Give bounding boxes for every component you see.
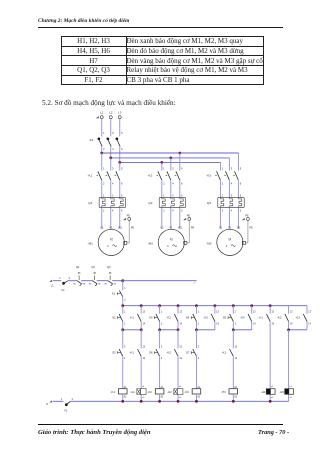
wire join to row2 contact branch 1	[122, 330, 124, 349]
svg-text:A2: A2	[124, 395, 128, 398]
PE terminal for motor -M3	[242, 218, 245, 220]
svg-text:14: 14	[290, 324, 293, 326]
contactor -K3 pole 1 contact blade	[217, 171, 221, 180]
section heading 5.2	[42, 99, 176, 107]
svg-text:-K3: -K3	[184, 390, 189, 394]
wire -K3 pole 2 to overload relay	[228, 180, 230, 197]
contactor -K1 pole 1 contact blade	[98, 171, 102, 180]
wire lamp -H2 to neutral bus	[177, 395, 179, 402]
footer left	[38, 429, 151, 436]
svg-text:5: 5	[240, 167, 242, 171]
svg-text:1: 1	[124, 311, 126, 313]
svg-text:5: 5	[181, 167, 183, 171]
contactor -K1 pole 2 contact blade	[107, 171, 111, 180]
svg-text:14: 14	[179, 324, 182, 326]
wire join to row2 contact branch 2	[140, 330, 142, 349]
svg-text:-H2: -H2	[167, 390, 172, 394]
svg-text:13: 13	[179, 346, 182, 348]
wire bus L2 to contactor -K3 pole 2	[228, 158, 230, 171]
wire control feed to fuse F2	[53, 280, 61, 282]
wire bus to row1 contact S2 branch 1	[122, 306, 124, 314]
breaker F1 pole 3 contact	[116, 137, 119, 140]
junction L1 bus / branch2	[178, 152, 181, 155]
wire bus to row1 contact -K3 branch 11	[306, 313, 308, 315]
svg-text:PE: PE	[127, 215, 131, 218]
wire L1 terminal to breaker F1 pole 1	[101, 119, 103, 136]
node A junction	[121, 279, 124, 282]
svg-text:W1: W1	[237, 226, 241, 229]
svg-text:14: 14	[308, 324, 311, 326]
contact S3 blade	[156, 314, 160, 322]
contact -K2 blade	[174, 349, 178, 356]
junction neutral bus / branch 5	[195, 400, 198, 403]
svg-text:3: 3	[225, 244, 227, 248]
junction L1 bus / branch1	[100, 152, 103, 155]
junction control bus / branch 4	[177, 304, 180, 307]
svg-text:4: 4	[198, 358, 200, 360]
svg-text:4: 4	[172, 181, 174, 185]
wire bus to contactor -K1 pole 2	[110, 158, 112, 171]
contact -K1 blade	[266, 314, 270, 322]
svg-text:L2: L2	[109, 111, 113, 115]
neutral bus rail	[71, 400, 289, 402]
svg-text:PE: PE	[250, 226, 254, 229]
svg-text:2: 2	[222, 210, 224, 213]
svg-text:95: 95	[104, 283, 107, 285]
wire row2 contact branch 5 to coil	[195, 356, 197, 388]
svg-text:-F1: -F1	[89, 138, 94, 142]
svg-text:U1: U1	[100, 226, 104, 229]
overload relay Q3 heater element 1	[219, 197, 221, 199]
svg-text:6: 6	[240, 181, 242, 185]
svg-text:PE: PE	[245, 215, 249, 218]
svg-text:x1: x1	[142, 386, 145, 388]
svg-text:1: 1	[222, 167, 224, 171]
wire lamp -H4 to neutral bus	[269, 395, 271, 402]
node L2 terminal	[109, 116, 112, 119]
svg-text:U1: U1	[219, 226, 223, 229]
wire neutral terminal to fuse F3	[53, 400, 63, 402]
svg-text:6: 6	[181, 181, 183, 185]
contactor -K1 pole 3 contact blade	[116, 171, 120, 180]
svg-text:F2: F2	[62, 289, 66, 292]
motor -M1 terminal box	[124, 241, 127, 244]
wire -K3 pole 3 to overload relay	[237, 180, 239, 197]
svg-text:3: 3	[167, 244, 169, 248]
overload relay Q3 heater element 3	[237, 197, 239, 199]
wire lamp -H1 to neutral bus	[140, 395, 142, 402]
overload relay Q1 heater element 2	[110, 197, 112, 199]
junction neutral bus / branch 2	[140, 400, 143, 403]
svg-text:2: 2	[222, 181, 224, 185]
button S3 actuator	[154, 317, 157, 319]
wire row1 contact branch 8 lower	[251, 322, 253, 330]
svg-text:14: 14	[179, 358, 182, 360]
svg-text:Q3: Q3	[107, 265, 111, 269]
svg-text:PE: PE	[131, 226, 135, 229]
svg-text:PE: PE	[191, 226, 195, 229]
svg-text:3: 3	[112, 194, 114, 197]
wire bus to row1 contact S5 branch 7	[232, 306, 234, 314]
wire row2 contact branch 1 to coil	[122, 356, 124, 388]
svg-text:2: 2	[235, 324, 237, 326]
wire row2 contact branch 7 to coil	[232, 356, 234, 388]
svg-text:96: 96	[83, 283, 86, 285]
wire lamp -H5 to neutral bus	[288, 395, 290, 402]
junction L2 bus / branch2	[169, 157, 172, 160]
svg-text:W1: W1	[118, 226, 122, 229]
svg-text:4: 4	[231, 210, 233, 213]
wire Q3 pole 1 to motor terminal	[219, 208, 221, 229]
svg-text:3: 3	[112, 131, 114, 135]
parallel join wire branches 7-8	[233, 329, 251, 331]
wire -K2 pole 2 to overload relay	[170, 180, 172, 197]
wire coil -K3 to neutral bus	[195, 394, 197, 401]
junction neutral bus / branch 1	[121, 400, 124, 403]
wire Q3 pole 2 to motor terminal	[228, 208, 230, 229]
svg-text:1: 1	[103, 194, 105, 197]
svg-text:13: 13	[308, 311, 311, 313]
svg-text:3: 3	[124, 346, 126, 348]
wire row1 contact branch 1 lower	[122, 322, 124, 330]
contact -K3 blade	[303, 314, 307, 322]
svg-text:2: 2	[124, 298, 126, 301]
contactor -K2 pole 2 contact blade	[167, 171, 171, 180]
motor -M3 terminal box	[242, 241, 245, 244]
svg-text:2: 2	[103, 181, 105, 185]
wire row2 contact branch 2 to coil	[140, 356, 142, 388]
svg-text:N: N	[46, 403, 48, 406]
wire row1 contact branch 9 lower	[269, 322, 271, 330]
svg-text:95: 95	[109, 273, 112, 275]
wire F1 pole 2 to bus	[110, 147, 112, 158]
svg-text:96: 96	[98, 283, 101, 285]
svg-text:3: 3	[231, 167, 233, 171]
wire bus to row1 contact S4 branch 5	[195, 306, 197, 314]
parallel join wire branches 5-6	[196, 329, 214, 331]
svg-text:4: 4	[231, 181, 233, 185]
svg-text:4: 4	[112, 147, 114, 151]
junction join / branch 4	[177, 328, 180, 331]
contactor -K3 pole 2 contact blade	[226, 171, 230, 180]
svg-text:-K1: -K1	[111, 390, 116, 394]
svg-text:6: 6	[121, 210, 123, 213]
svg-text:13: 13	[142, 346, 145, 348]
node L1 control feed terminal	[49, 280, 52, 282]
wire control bus stub	[123, 280, 197, 282]
svg-text:Q1: Q1	[88, 201, 92, 205]
svg-text:1: 1	[161, 311, 163, 313]
contact -K4 blade	[248, 314, 252, 322]
svg-text:-K2: -K2	[166, 350, 171, 354]
svg-text:-H5: -H5	[279, 390, 284, 394]
wire join to row2 contact branch 3	[159, 330, 161, 349]
page header	[38, 18, 129, 24]
bus L3	[120, 161, 221, 163]
svg-text:x2: x2	[179, 397, 182, 399]
breaker F1 pole 2 contact	[107, 137, 110, 140]
wire Q3 contact to node A	[112, 280, 123, 282]
wire bus to row1 contact -K1 branch 2	[140, 306, 142, 314]
wire branch 9 to lamp H4	[269, 330, 271, 389]
wire bus to row1 contact -K3 branch 6	[214, 306, 216, 314]
svg-text:2: 2	[161, 324, 163, 326]
parallel join wire branches 1-2	[123, 329, 141, 331]
svg-text:5: 5	[181, 194, 183, 197]
wire row1 contact branch 7 lower	[232, 322, 234, 330]
svg-text:2: 2	[163, 210, 165, 213]
svg-text:95: 95	[78, 273, 81, 275]
wire row2 contact branch 3 to coil	[159, 356, 161, 388]
wire Q2 pole 1 to motor terminal	[161, 208, 163, 229]
svg-text:M: M	[110, 237, 113, 241]
svg-text:-K1: -K1	[87, 174, 92, 178]
wire L2 terminal to breaker F1 pole 2	[110, 119, 112, 136]
svg-text:14: 14	[271, 324, 274, 326]
svg-text:1: 1	[59, 277, 61, 280]
junction join / branch 7	[232, 328, 235, 331]
wire Q3 pole 3 to motor terminal	[237, 208, 239, 229]
junction control bus / branch 1	[121, 304, 124, 307]
wire to overload contact Q1	[68, 280, 77, 282]
node L3 terminal	[118, 116, 121, 119]
svg-text:1: 1	[103, 131, 105, 135]
junction control bus / branch 3	[158, 304, 161, 307]
svg-text:-K1: -K1	[130, 316, 135, 320]
junction control bus / branch 7	[232, 304, 235, 307]
junction join / branch 10	[287, 328, 290, 331]
contact S2 blade	[119, 314, 123, 322]
svg-text:-M2: -M2	[148, 242, 154, 246]
wire join to row2 contact branch 4	[177, 330, 179, 349]
svg-text:95: 95	[93, 273, 96, 275]
svg-text:PE: PE	[187, 215, 191, 218]
svg-text:Q1: Q1	[76, 265, 80, 269]
wire coil -K2 to neutral bus	[159, 394, 161, 401]
svg-text:14: 14	[235, 358, 238, 360]
svg-text:-K4: -K4	[240, 316, 245, 320]
svg-text:Q3: Q3	[207, 201, 211, 205]
wire to overload contact Q3	[97, 280, 108, 282]
svg-text:2: 2	[163, 181, 165, 185]
svg-text:x2: x2	[142, 397, 145, 399]
wire -K3 pole 1 to overload relay	[219, 180, 221, 197]
svg-text:96: 96	[114, 283, 117, 285]
junction neutral bus / branch 9	[269, 400, 272, 403]
overload relay Q3 heater element 2	[228, 197, 230, 199]
contactor -K3 pole 3 contact blade	[235, 171, 239, 180]
svg-text:-K3: -K3	[295, 316, 300, 320]
svg-text:Q2: Q2	[148, 201, 152, 205]
svg-text:2: 2	[198, 324, 200, 326]
junction join / branch 3	[158, 328, 161, 331]
contact S7 blade	[193, 349, 197, 356]
breaker F1 pole 1 contact	[98, 137, 101, 140]
legend table	[61, 36, 264, 85]
svg-text:A2: A2	[234, 395, 238, 398]
wire join to row2 contact branch 7	[232, 330, 234, 349]
svg-text:-K2: -K2	[277, 316, 282, 320]
overload relay Q2 body	[159, 197, 185, 207]
parallel join wire branches 3-4	[160, 329, 178, 331]
svg-text:13: 13	[235, 346, 238, 348]
wire PE to motor -M2 frame	[188, 221, 190, 243]
button S3 actuator	[118, 352, 121, 354]
svg-text:S7: S7	[186, 350, 190, 354]
svg-text:-H1: -H1	[130, 390, 135, 394]
wire bus L2 to contactor -K2 pole 2	[170, 158, 172, 171]
wire row1 contact branch 10 lower	[288, 322, 290, 330]
wire Q1 pole 3 to motor terminal	[119, 208, 121, 229]
junction neutral bus / branch 4	[177, 400, 180, 403]
svg-text:L1: L1	[51, 285, 54, 288]
wire S1 to control bus	[122, 297, 124, 306]
wire row1 contact branch 2 lower	[140, 322, 142, 330]
junction control bus / branch 6	[213, 304, 216, 307]
svg-text:-M3: -M3	[206, 242, 212, 246]
contact S4 blade	[193, 314, 197, 322]
motor -M3 body	[217, 229, 243, 255]
wire -K2 pole 3 to overload relay	[179, 180, 181, 197]
svg-text:x1: x1	[289, 386, 292, 388]
contact -K3 blade	[211, 314, 215, 322]
svg-text:M: M	[229, 237, 232, 241]
svg-text:S3: S3	[149, 316, 153, 320]
wire bus to row1 contact S3 branch 3	[159, 306, 161, 314]
overload relay Q2 heater element 1	[161, 197, 163, 199]
wire PE to motor -M1 frame	[128, 221, 130, 243]
svg-text:S2: S2	[112, 316, 116, 320]
junction neutral bus / branch 3	[158, 400, 161, 403]
junction join / branch 1	[121, 328, 124, 331]
junction L2 bus / branch1	[109, 157, 112, 160]
contact S6 blade	[156, 349, 160, 356]
overload relay Q1 heater element 3	[119, 197, 121, 199]
svg-text:1: 1	[235, 311, 237, 313]
wire row1 contact branch 4 lower	[177, 322, 179, 330]
wire join to row2 contact branch 5	[195, 330, 197, 349]
contactor -K2 pole 1 contact blade	[158, 171, 162, 180]
junction L3 bus / branch1	[118, 161, 121, 164]
wire bus to row1 contact -K4 branch 8	[251, 306, 253, 314]
svg-text:U1: U1	[160, 226, 164, 229]
wire row1 contact branch 3 lower	[159, 322, 161, 330]
svg-text:3: 3	[112, 167, 114, 171]
stop button S1	[122, 281, 124, 291]
svg-text:-K2: -K2	[147, 390, 152, 394]
button S5 actuator	[228, 317, 231, 319]
wire -K1 pole 1 to overload relay	[101, 180, 103, 197]
wire -K2 pole 1 to overload relay	[161, 180, 163, 197]
svg-text:4: 4	[124, 358, 126, 360]
button S2 actuator	[118, 317, 121, 319]
bus L1	[102, 152, 239, 154]
junction L3 bus / branch2	[160, 161, 163, 164]
svg-text:2: 2	[103, 210, 105, 213]
wire coil -K1 to neutral bus	[122, 394, 124, 401]
svg-text:4: 4	[112, 181, 114, 185]
button S7 actuator	[191, 352, 194, 354]
wire coil -H3 to neutral bus	[232, 394, 234, 401]
svg-text:S3: S3	[112, 350, 116, 354]
motor -M2 body	[158, 229, 184, 255]
svg-text:S4: S4	[186, 316, 190, 320]
svg-text:13: 13	[142, 311, 145, 313]
contact -K2 blade	[285, 314, 289, 322]
svg-text:5: 5	[240, 194, 242, 197]
junction join / branch 5	[195, 328, 198, 331]
svg-text:5: 5	[121, 194, 123, 197]
svg-text:6: 6	[240, 210, 242, 213]
svg-text:Q2: Q2	[91, 265, 95, 269]
svg-text:5: 5	[121, 131, 123, 135]
wire F1 pole 3 to bus	[119, 147, 121, 163]
svg-text:13: 13	[253, 311, 256, 313]
contact S5 blade	[230, 314, 234, 322]
contact S3 blade	[119, 349, 123, 356]
svg-text:1: 1	[61, 398, 63, 401]
PE terminal for motor -M2	[183, 218, 186, 220]
svg-text:-K3: -K3	[206, 174, 211, 178]
junction control bus / branch 8	[250, 304, 253, 307]
svg-text:1: 1	[198, 311, 200, 313]
svg-text:-K2: -K2	[148, 174, 153, 178]
svg-text:-M1: -M1	[88, 242, 94, 246]
wire bus to row1 contact -K2 branch 10	[288, 306, 290, 314]
svg-text:3: 3	[231, 194, 233, 197]
svg-text:A2: A2	[161, 395, 165, 398]
svg-text:13: 13	[216, 311, 219, 313]
junction control bus / branch 5	[195, 304, 198, 307]
svg-text:13: 13	[179, 311, 182, 313]
wire PE to motor -M3 frame	[247, 221, 249, 243]
svg-text:-K1: -K1	[259, 316, 264, 320]
svg-text:14: 14	[142, 324, 145, 326]
motor -M2 terminal box	[184, 241, 187, 244]
wire bus L1 to contactor -K2 pole 3	[179, 153, 181, 171]
svg-text:-K1: -K1	[130, 350, 135, 354]
contact -K1 blade	[137, 314, 141, 322]
svg-text:S6: S6	[149, 350, 153, 354]
junction control bus / branch 2	[140, 304, 143, 307]
svg-text:S1: S1	[112, 292, 116, 296]
svg-text:13: 13	[290, 311, 293, 313]
header rule	[38, 26, 283, 29]
node N neutral terminal	[49, 400, 52, 402]
svg-text:-H4: -H4	[261, 390, 266, 394]
wire row1 contact branch 11 lower	[306, 322, 308, 330]
svg-text:3: 3	[107, 244, 109, 248]
svg-text:-K2: -K2	[166, 316, 171, 320]
wire -K1 pole 3 to overload relay	[119, 180, 121, 197]
wire bus to row1 contact -K1 branch 9	[269, 306, 271, 314]
wire row1 contact branch 6 lower	[214, 322, 216, 330]
svg-text:-K1: -K1	[222, 350, 227, 354]
junction neutral bus / branch 7	[232, 400, 235, 403]
svg-text:2: 2	[103, 147, 105, 151]
svg-text:3: 3	[198, 346, 200, 348]
wire branch 10 to lamp H5	[288, 330, 290, 389]
button S6 actuator	[154, 352, 157, 354]
svg-text:3: 3	[172, 194, 174, 197]
bus L2	[111, 157, 230, 159]
svg-text:4: 4	[112, 210, 114, 213]
overload relay Q2 heater element 2	[170, 197, 172, 199]
overload relay Q1 body	[99, 197, 125, 207]
svg-text:A2: A2	[197, 395, 201, 398]
wire bus L3 to contactor -K3 pole 1	[219, 162, 221, 170]
wire bus L1 to contactor -K3 pole 3	[237, 153, 239, 171]
